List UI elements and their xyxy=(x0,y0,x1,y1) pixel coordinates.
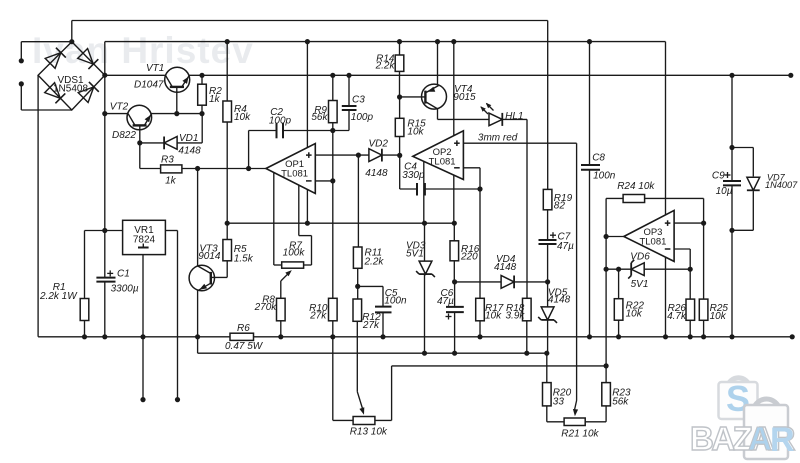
node R16 bus xyxy=(452,221,457,226)
wire R24 left corner xyxy=(606,198,623,236)
wire HL1 cathode down to R18 xyxy=(503,119,528,298)
wire R25 leads xyxy=(703,223,705,337)
resistor R18 xyxy=(523,298,532,321)
svg-text:R24 10k: R24 10k xyxy=(617,181,655,192)
wire VT1 base lead xyxy=(176,88,178,114)
node VD1 VT2 xyxy=(137,140,142,145)
svg-text:10k: 10k xyxy=(710,311,727,322)
wire ground rail riser353 xyxy=(197,337,199,353)
diode VD2 4148 xyxy=(369,149,382,162)
transistor VT1 xyxy=(165,67,190,92)
wire OP2 Vminus pin xyxy=(423,161,425,223)
svg-text:5V1: 5V1 xyxy=(406,249,424,260)
wire rail42 drop x307 xyxy=(306,42,308,224)
resistor R7 xyxy=(282,262,304,268)
wire VD6 node xyxy=(606,268,690,270)
bridge diode bottom-right xyxy=(78,82,99,103)
wire VD4 node xyxy=(455,281,548,283)
diode VD1 4148 xyxy=(164,137,177,150)
wire VD3 leads xyxy=(424,223,426,353)
node R2 top xyxy=(199,73,204,78)
wire VR1 output xyxy=(165,231,177,400)
wire VR1 ground pin xyxy=(142,255,144,400)
svg-text:33: 33 xyxy=(553,396,565,407)
logo shopping bag small xyxy=(744,399,788,459)
node C6 rail353 xyxy=(452,351,457,356)
wire R9 leads xyxy=(332,75,334,130)
capacitor C4 330p xyxy=(417,183,425,196)
wire OP2 plus input xyxy=(463,142,576,144)
wire OP1 plus input xyxy=(315,154,371,156)
terminal rail75 end xyxy=(788,73,793,78)
wire bridge top to top rail xyxy=(71,21,73,42)
svg-text:7824: 7824 xyxy=(133,235,156,246)
wire C8 leads xyxy=(589,42,591,337)
wire R17 bottom xyxy=(479,321,481,337)
svg-text:TL081: TL081 xyxy=(639,237,666,248)
svg-text:4148: 4148 xyxy=(548,295,571,306)
node VT1 base xyxy=(174,111,179,116)
resistor R26 xyxy=(686,299,695,320)
wire R15 leads xyxy=(399,97,401,155)
node bridge plus xyxy=(102,73,107,78)
svg-text:1.5k: 1.5k xyxy=(234,253,254,264)
node VD5 rail353 xyxy=(544,351,549,356)
resistor R1 xyxy=(80,299,89,321)
svg-text:1N5408: 1N5408 xyxy=(53,84,88,95)
wire OP2 minus input xyxy=(463,168,480,298)
node x307 bus xyxy=(305,221,310,226)
resistor R10 xyxy=(329,298,338,321)
wire VD1 anode up to R2 node xyxy=(177,114,202,143)
wire C3 leads xyxy=(333,75,349,130)
wire VD2 to OP2 output xyxy=(382,154,400,156)
node OP2 output xyxy=(397,153,402,158)
wire VT4 base xyxy=(400,96,425,98)
wire bridge to VT1 xyxy=(105,74,165,76)
wire VR1 input xyxy=(85,230,123,232)
wire C2 feedback xyxy=(249,131,333,169)
svg-text:4148: 4148 xyxy=(178,146,201,157)
svg-text:4148: 4148 xyxy=(365,168,388,179)
wire C9 leads xyxy=(731,148,733,337)
label VR1 xyxy=(133,225,156,248)
node OP3 output xyxy=(604,234,609,239)
svg-text:VT1: VT1 xyxy=(146,63,164,74)
svg-text:27k: 27k xyxy=(309,310,327,321)
node VT4 base xyxy=(397,94,402,99)
capacitor C5 100n xyxy=(375,307,392,313)
svg-text:VT2: VT2 xyxy=(110,102,129,113)
wire OP2 output node to C4 xyxy=(400,155,417,189)
wire AC input lower xyxy=(21,84,72,110)
resistor R23 xyxy=(602,383,611,406)
wire VD5 leads xyxy=(547,282,549,353)
terminal VR1 gnd out xyxy=(140,397,145,402)
transistor VT3 xyxy=(189,265,214,290)
node C9 bottom xyxy=(729,228,734,233)
wire VD7 branch xyxy=(732,148,753,231)
node R14 rail42 xyxy=(397,39,402,44)
wire bridge plus riser xyxy=(104,42,106,76)
svg-text:56k: 56k xyxy=(311,112,328,123)
wire OP1 null pin 1 xyxy=(274,173,282,266)
svg-text:100p: 100p xyxy=(269,116,292,127)
wire rail y366 xyxy=(392,365,606,367)
arrowhead R13 wiper xyxy=(359,407,364,415)
regulator VR1 7824 xyxy=(123,220,166,254)
resistor R24 xyxy=(623,195,645,203)
node VD7 feed xyxy=(729,73,734,78)
wire rail42 drop x454 xyxy=(453,42,455,224)
svg-text:27k: 27k xyxy=(362,320,380,331)
node x454 rail42 xyxy=(451,39,456,44)
svg-text:0.47 5W: 0.47 5W xyxy=(225,341,264,352)
svg-text:9015: 9015 xyxy=(453,92,476,103)
wire OP1 minus input xyxy=(315,180,333,182)
node VD4 C7 xyxy=(545,279,550,284)
node R16 VD4 xyxy=(452,279,457,284)
node OP3 R23 rail366 xyxy=(604,363,609,368)
node C9 top xyxy=(729,145,734,150)
node R4 R5 bus xyxy=(225,221,230,226)
svg-text:100k: 100k xyxy=(283,247,306,258)
node VR1 gnd xyxy=(140,334,145,339)
wire VD7 C9 feed xyxy=(731,75,733,147)
resistor R9 xyxy=(329,101,338,123)
node R18 rail353 xyxy=(524,351,529,356)
node C3 top xyxy=(346,73,351,78)
node R1 gnd xyxy=(82,334,87,339)
wire VT2 base lead xyxy=(139,126,141,143)
wire OP3 out down xyxy=(605,237,607,366)
node VT2 collector xyxy=(102,111,107,116)
svg-text:1N4007: 1N4007 xyxy=(765,180,798,190)
arrowhead R7 wiper xyxy=(285,270,292,276)
node VT3 emitter gnd xyxy=(195,334,200,339)
resistor R17 xyxy=(476,298,485,321)
svg-text:VD6: VD6 xyxy=(630,251,650,262)
node R22 top xyxy=(616,267,621,272)
svg-text:R6: R6 xyxy=(237,323,250,334)
resistor R25 xyxy=(699,299,708,320)
resistor R6 xyxy=(230,333,254,340)
svg-text:R21 10k: R21 10k xyxy=(561,429,599,440)
node R2 bottom xyxy=(199,111,204,116)
node R11 R12 xyxy=(355,284,360,289)
AC terminal upper xyxy=(19,58,24,63)
node R10 gnd xyxy=(330,334,335,339)
wire VT2 emitter to VT1 base node xyxy=(151,113,202,115)
wire rail353 to R20 xyxy=(546,353,548,382)
op-amp OP3 TL081 xyxy=(624,210,674,261)
transistor VT2 xyxy=(127,105,152,130)
resistor R2 xyxy=(198,84,207,105)
svg-text:2.2k: 2.2k xyxy=(364,256,385,267)
wire VT3 emitter down xyxy=(197,290,199,336)
wire C4 to OP2 minus xyxy=(425,188,480,190)
node VR1 input xyxy=(102,228,107,233)
svg-text:10k: 10k xyxy=(626,308,643,319)
node R4 rail42 xyxy=(225,39,230,44)
node C8 gnd xyxy=(587,334,592,339)
logo shopping bag large xyxy=(719,378,758,419)
resistor R15 xyxy=(395,118,404,136)
wire VT2 base down to R3 xyxy=(140,143,161,169)
bridge diode top-right xyxy=(78,49,99,70)
wire VT4 collector to HL1 xyxy=(438,109,489,120)
wire R26 leads xyxy=(689,269,691,337)
arrowhead R21 wiper xyxy=(573,409,578,416)
node OP3 plus R24 xyxy=(701,221,706,226)
wire R23 leads xyxy=(585,366,606,422)
resistor R3 xyxy=(161,165,182,173)
svg-text:3.9k: 3.9k xyxy=(506,310,526,321)
wire OP1 null pin 2 xyxy=(299,185,312,265)
resistor R8 xyxy=(277,298,286,321)
wire bridge minus drop xyxy=(37,75,39,337)
capacitor C3 100p xyxy=(342,106,357,110)
svg-text:D1047: D1047 xyxy=(134,80,164,91)
node R17 gnd xyxy=(477,334,482,339)
svg-text:TL081: TL081 xyxy=(281,169,308,180)
node R26 gnd xyxy=(688,334,693,339)
wire R18 bottom xyxy=(526,321,528,353)
wire VT4 emitter lead xyxy=(437,42,439,85)
wire R2 leads xyxy=(201,75,203,113)
wire R13 right riser xyxy=(375,366,392,421)
node VD6 R26 xyxy=(688,267,693,272)
diode VD7 1N4007 xyxy=(747,177,760,190)
svg-text:1k: 1k xyxy=(165,176,177,187)
node R22 gnd xyxy=(616,334,621,339)
wire R14 leads xyxy=(399,42,401,97)
AC terminal lower xyxy=(19,81,24,86)
node bridge top xyxy=(69,39,74,44)
wire R7 wiper xyxy=(281,272,290,298)
wire OP3 output xyxy=(606,236,624,238)
svg-text:C8: C8 xyxy=(592,152,605,163)
zener VD5 4148 xyxy=(538,307,557,323)
wire top rail xyxy=(72,20,548,22)
node R25 gnd xyxy=(701,334,706,339)
wire R5 leads xyxy=(211,223,227,277)
capacitor C6 47u xyxy=(446,307,464,320)
wire rail y353 xyxy=(198,352,547,354)
svg-text:47µ: 47µ xyxy=(557,241,574,252)
svg-text:VD2: VD2 xyxy=(369,139,389,150)
wire R22 leads xyxy=(618,269,620,337)
zener VD3 5V1 xyxy=(416,261,435,277)
svg-text:9014: 9014 xyxy=(198,251,221,262)
wire R19 to C7 xyxy=(547,210,549,282)
node VD3 bus xyxy=(422,221,427,226)
potentiometer R13 xyxy=(353,417,375,425)
capacitor C9 10u xyxy=(723,172,741,185)
wire OP3 minus corner xyxy=(674,249,690,269)
svg-text:R13 10k: R13 10k xyxy=(350,426,388,437)
wire R24 right corner xyxy=(645,198,704,223)
svg-text:4.7k: 4.7k xyxy=(667,311,687,322)
wire R11 top lead xyxy=(357,155,359,247)
LED HL1 xyxy=(480,103,502,126)
svg-text:R3: R3 xyxy=(161,155,174,166)
svg-text:100p: 100p xyxy=(351,112,374,123)
wire C6 leads xyxy=(454,282,456,353)
node OP1 output xyxy=(246,166,251,171)
svg-text:100n: 100n xyxy=(384,296,407,307)
svg-text:47µ: 47µ xyxy=(437,296,454,307)
resistor R14 xyxy=(395,55,404,71)
node VT4 rail42 xyxy=(435,39,440,44)
wire R3 node down to VT3 xyxy=(197,169,199,267)
resistor R4 xyxy=(223,101,232,122)
svg-text:2.2k: 2.2k xyxy=(375,61,396,72)
wire +V rail y42 xyxy=(105,41,666,43)
wire OP3 plus input xyxy=(674,222,704,224)
bridge rectifier VDS1 outline xyxy=(38,42,105,110)
svg-text:A: A xyxy=(748,420,772,457)
wire R1 leads xyxy=(84,231,86,337)
node C1 gnd xyxy=(102,334,107,339)
wire R11 bottom xyxy=(357,268,359,299)
svg-text:C3: C3 xyxy=(352,94,365,105)
wire V+ bus y223 xyxy=(227,222,454,224)
resistor R16 xyxy=(450,241,459,261)
potentiometer R21 xyxy=(564,418,585,426)
svg-text:Ivan Hristev: Ivan Hristev xyxy=(32,30,254,71)
svg-text:2.2k 1W: 2.2k 1W xyxy=(39,291,78,302)
node C9 gnd xyxy=(729,334,734,339)
svg-text:10µ: 10µ xyxy=(716,186,733,197)
svg-text:10k: 10k xyxy=(485,310,502,321)
svg-text:5V1: 5V1 xyxy=(631,279,649,290)
bridge diode bottom-left xyxy=(45,83,66,104)
terminal gnd rail end xyxy=(790,334,795,339)
wire OP1 minus node down to R13 left xyxy=(333,131,353,421)
resistor R22 xyxy=(614,299,623,321)
node rail42drop gnd xyxy=(663,334,668,339)
svg-text:C9: C9 xyxy=(712,171,725,182)
wire C5 branch xyxy=(358,286,383,336)
resistor R12 xyxy=(353,299,362,321)
resistor R11 xyxy=(353,247,362,268)
wire VD1 cathode side xyxy=(140,142,164,144)
svg-text:330p: 330p xyxy=(402,170,425,181)
wire OP2 plus down to R21 wiper xyxy=(575,143,577,409)
svg-text:C1: C1 xyxy=(117,268,130,279)
node OP3out VD6 xyxy=(604,267,609,272)
wire R16 leads xyxy=(453,223,455,282)
wire raw rail y75 xyxy=(190,74,791,76)
node C8 rail42 xyxy=(587,39,592,44)
svg-text:10k: 10k xyxy=(234,112,251,123)
svg-text:D822: D822 xyxy=(112,130,136,141)
svg-text:3300µ: 3300µ xyxy=(111,284,139,295)
svg-text:4148: 4148 xyxy=(494,262,517,273)
svg-text:82: 82 xyxy=(554,201,566,212)
wire rail42 right drop xyxy=(665,42,667,337)
node C2 R9 xyxy=(330,128,335,133)
svg-text:VD1: VD1 xyxy=(179,133,198,144)
resistor R20 xyxy=(543,383,552,406)
wire R12 down to R13 wiper xyxy=(357,321,363,409)
bridge diode top-left xyxy=(45,48,66,69)
svg-text:56k: 56k xyxy=(612,396,629,407)
svg-text:220: 220 xyxy=(460,251,478,262)
wire bridge plus down xyxy=(104,75,106,230)
wire R8 bottom xyxy=(280,321,282,337)
resistor R19 xyxy=(543,189,552,209)
node OP1 minus xyxy=(330,178,335,183)
wire R20 to R21 xyxy=(547,406,564,422)
node R9 top xyxy=(330,73,335,78)
resistor R5 xyxy=(223,240,232,261)
capacitor C8 100n xyxy=(581,165,600,170)
logo BAZAR text xyxy=(690,420,796,459)
svg-text:270k: 270k xyxy=(254,302,278,313)
node x307 rail42 xyxy=(305,39,310,44)
svg-text:100n: 100n xyxy=(593,171,616,182)
svg-text:TL081: TL081 xyxy=(429,156,456,167)
wire VT2 collector xyxy=(105,113,128,115)
node R8 gnd xyxy=(278,334,283,339)
wire R3 to OP1 output xyxy=(182,168,266,170)
svg-text:3mm red: 3mm red xyxy=(478,133,518,144)
wire R4 leads xyxy=(226,42,228,224)
op-amp OP2 TL081 xyxy=(413,131,464,180)
node C4 OP2minus xyxy=(477,186,482,191)
capacitor C2 100p xyxy=(277,123,284,138)
node C5 gnd xyxy=(380,334,385,339)
wire C1 leads xyxy=(104,231,106,337)
transistor VT4 xyxy=(422,84,447,109)
svg-text:1k: 1k xyxy=(209,94,221,105)
wire top rail drop to R19 xyxy=(547,21,549,190)
wire AC input upper xyxy=(21,42,72,61)
node OP1 plus xyxy=(356,153,361,158)
svg-text:HL1: HL1 xyxy=(505,111,523,122)
diode VD4 4148 xyxy=(501,276,514,289)
svg-text:10k: 10k xyxy=(407,126,424,137)
svg-text:R: R xyxy=(770,421,795,459)
capacitor C7 47u xyxy=(539,232,557,244)
op-amp OP1 TL081 xyxy=(266,144,315,194)
node VD3 rail353 xyxy=(422,351,427,356)
wire ground rail y337 xyxy=(38,336,792,338)
capacitor C1 3300u xyxy=(96,270,115,281)
terminal VR1 plus out xyxy=(175,397,180,402)
zener VD6 5V1 xyxy=(628,260,644,279)
node R3 right xyxy=(195,166,200,171)
